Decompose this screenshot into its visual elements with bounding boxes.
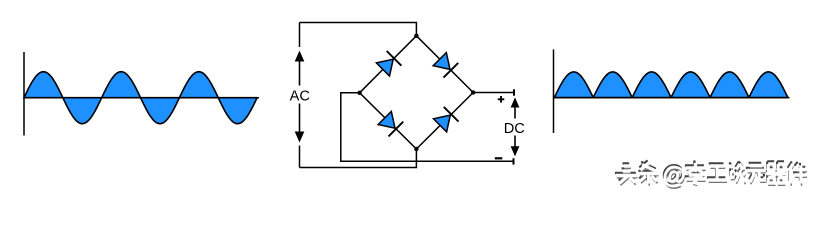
minus sign: [495, 157, 503, 159]
svg-text:@: @: [663, 163, 686, 189]
watermark character qi: [766, 161, 786, 185]
wire: left vertex to minus output rail: [341, 93, 513, 162]
diode D3 (left vertex to bottom vertex): [377, 111, 403, 137]
junction dot right vertex: [471, 90, 475, 94]
DC double-headed arrow: [511, 97, 520, 156]
watermark character yuan: [746, 163, 766, 184]
watermark character tou: [615, 163, 638, 185]
output waveform horizontal axis: [553, 97, 790, 99]
watermark @ symbol: [661, 160, 686, 191]
plus sign: [498, 96, 505, 103]
watermark character tiao: [638, 160, 658, 185]
wire: bottom horizontal wire from AC to bridge bottom: [300, 149, 417, 168]
wire: left AC vertical wire bottom segment: [299, 146, 301, 168]
watermark character li: [685, 160, 706, 185]
output rectified waveform (6 humps, blue fill): [554, 72, 788, 98]
bridge diamond edge: top-right: [416, 36, 473, 93]
plus terminal tick: [513, 89, 515, 95]
watermark character gong: [707, 163, 727, 182]
bridge diamond edge: left-bottom: [360, 93, 417, 149]
bridge diamond edge: bottom-right: [416, 93, 473, 150]
diode D4 (bottom vertex to right vertex): [433, 107, 459, 133]
watermark character jian: [788, 161, 807, 185]
minus terminal tick: [513, 158, 515, 164]
diode D1 (left vertex to top vertex): [376, 51, 402, 77]
wire: right vertex to plus output: [473, 92, 514, 94]
wire: left AC vertical wire top segment: [299, 23, 301, 48]
input AC waveform vertical axis: [23, 52, 25, 136]
junction dot left vertex: [357, 91, 361, 95]
diode D2 (top vertex to right vertex): [432, 52, 458, 78]
junction dot top vertex: [414, 34, 418, 38]
label DC: [505, 119, 526, 136]
watermark character tan: [729, 161, 745, 184]
label AC: [291, 86, 310, 104]
AC double-headed arrow: [295, 51, 305, 143]
bridge diamond edge: left-top: [360, 36, 417, 93]
input AC waveform horizontal axis: [23, 97, 259, 99]
svg-text:DC: DC: [504, 121, 525, 137]
junction dot bottom vertex: [414, 147, 418, 151]
input AC sine wave (3 cycles, blue fill): [24, 72, 257, 124]
output waveform vertical axis: [553, 49, 555, 133]
svg-text:AC: AC: [290, 88, 310, 104]
wire: top horizontal wire from AC to bridge top: [300, 23, 417, 36]
